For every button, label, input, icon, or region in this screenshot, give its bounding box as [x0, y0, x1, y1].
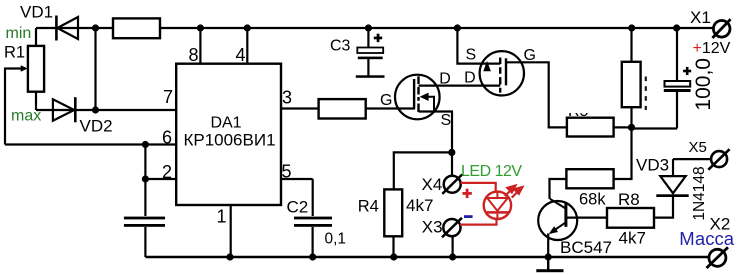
wire node to 68k resistor right lead [613, 127, 632, 179]
terminal X4 [442, 174, 462, 194]
svg-text:Масса: Масса [679, 228, 734, 249]
plus sign red [462, 189, 471, 198]
svg-text:VD2: VD2 [80, 116, 113, 135]
svg-text:R4: R4 [358, 198, 379, 216]
terminal X1 [712, 19, 730, 38]
IC DA1 KR1006VI1 [176, 64, 281, 205]
svg-text:LED 12V: LED 12V [461, 163, 522, 180]
wire VD1 anode-cathode horizontal [36, 27, 96, 29]
wire C2 bottom lead [312, 227, 314, 257]
LED arrows [505, 186, 523, 198]
wire gate Q2 [506, 62, 567, 127]
svg-text:S: S [466, 47, 477, 64]
diode VD1 [56, 16, 78, 41]
resistor R4 [384, 189, 402, 236]
wire source Q2 from rail [457, 28, 500, 64]
wire drain Q1 to drain Q2 [419, 84, 501, 86]
svg-text:6: 6 [162, 128, 172, 148]
wire pin 8 stub [199, 28, 201, 64]
svg-text:G: G [524, 47, 536, 64]
resistor R8 [607, 208, 654, 228]
wire C4 top lead [676, 28, 678, 81]
resistor 68k [566, 169, 613, 188]
svg-text:3: 3 [282, 88, 292, 108]
svg-text:C3: C3 [330, 38, 351, 55]
plus sign C4 [683, 67, 691, 75]
wire emitter Q3 to ground rail [547, 234, 549, 258]
wire R1 bottom to VD2 [35, 92, 37, 110]
wire vertical node between VD1 and VD2 junctions [94, 28, 96, 110]
svg-text:68k: 68k [579, 191, 606, 209]
svg-text:X4: X4 [422, 175, 443, 194]
svg-text:4: 4 [235, 45, 245, 65]
svg-text:D: D [439, 70, 451, 87]
svg-text:+12V: +12V [693, 40, 731, 57]
svg-text:C2: C2 [287, 198, 309, 217]
svg-text:4k7: 4k7 [619, 229, 646, 248]
wire pin 2 [145, 178, 176, 180]
terminal X3 [442, 218, 462, 238]
wire pin 3 to resistor [281, 107, 319, 109]
ground symbol at emitter [536, 257, 563, 272]
wire VD3 anode lead [672, 159, 674, 176]
MOSFET Q1 [395, 75, 440, 120]
erased label R5 remnant [565, 98, 591, 120]
wire C4 bottom lead [676, 92, 678, 129]
wire VD2 to pin 7 [36, 109, 176, 111]
svg-text:4k7: 4k7 [406, 196, 433, 215]
minus sign blue [464, 215, 473, 218]
wire wiper down left side [4, 68, 6, 145]
svg-text:R8: R8 [618, 190, 640, 209]
wire X3 to ground rail [452, 236, 454, 257]
LED red wiring to X3 [460, 219, 497, 225]
plus sign C3 [374, 34, 382, 42]
wire pin 4 stub [246, 28, 248, 64]
wire R5 right lead [614, 126, 632, 128]
svg-text:7: 7 [163, 87, 173, 107]
erased label remnant dashes right of R6 [645, 77, 647, 111]
wire R4 bottom lead [392, 236, 394, 257]
wire top +12V rail [96, 27, 715, 29]
wire node to C4 bottom lead [632, 127, 678, 129]
svg-text:0,1: 0,1 [325, 231, 347, 248]
wire R1 wiper [5, 67, 22, 69]
svg-text:X5: X5 [689, 139, 707, 156]
wire C3 bottom lead [367, 59, 369, 76]
resistor R5 partially erased label [567, 118, 614, 137]
capacitor C3 [357, 48, 383, 60]
svg-text:100,0: 100,0 [692, 58, 715, 111]
wire node to X4 terminal [451, 152, 453, 176]
LED VD4 [484, 192, 511, 220]
wire pin 1 stub [230, 205, 232, 257]
svg-text:КР1006ВИ1: КР1006ВИ1 [183, 130, 275, 149]
wire VD3 cathode to R8 [654, 197, 673, 218]
wire C2 top lead [312, 179, 314, 216]
svg-text:X1: X1 [690, 8, 711, 27]
svg-text:VD1: VD1 [20, 3, 53, 22]
svg-text:max: max [11, 107, 41, 124]
svg-text:min: min [6, 25, 32, 42]
wire C1 bottom lead [144, 227, 146, 257]
svg-text:G: G [380, 92, 392, 109]
svg-text:1N4148: 1N4148 [691, 166, 708, 220]
resistor R2 top [113, 18, 160, 38]
capacitor C1 [124, 217, 165, 227]
svg-text:8: 8 [188, 45, 198, 65]
svg-text:5: 5 [282, 162, 292, 182]
wire R8 to base Q3 [566, 217, 607, 219]
resistor R6 vertical [622, 62, 641, 107]
svg-text:BC547: BC547 [560, 238, 612, 257]
wire R6 top lead [630, 28, 632, 62]
potentiometer R1 [21, 46, 44, 92]
wire 68k to collector Q3 [550, 179, 567, 199]
wire R6 bottom lead [630, 107, 632, 127]
terminal X2 [707, 247, 729, 268]
capacitor C4 100,0 [664, 81, 691, 92]
ground bar below C3 [356, 75, 385, 78]
wire node to R4 [394, 152, 452, 190]
svg-text:X3: X3 [422, 218, 443, 237]
wire C1 top lead [144, 145, 146, 217]
svg-text:D: D [464, 70, 476, 87]
wire pin 5 [281, 178, 313, 180]
svg-text:1: 1 [217, 206, 227, 226]
transistor Q3 BC547 [538, 199, 577, 240]
wire R1 top to VD1 [35, 28, 37, 46]
resistor R3 [319, 99, 366, 118]
MOSFET Q2 [480, 51, 524, 95]
svg-text:2: 2 [162, 162, 172, 182]
wire C3 top lead [367, 28, 369, 48]
svg-text:S: S [441, 112, 452, 129]
svg-text:DA1: DA1 [210, 114, 241, 131]
wire ground bottom rail [145, 256, 709, 259]
wire pin 6 [5, 143, 176, 145]
diode VD2 [53, 97, 75, 122]
svg-text:R1: R1 [4, 44, 25, 62]
wire resistor to gate Q1 [366, 107, 415, 109]
svg-text:VD3: VD3 [636, 156, 669, 175]
capacitor C2 [294, 217, 332, 227]
wire X5 terminal [673, 158, 711, 160]
LED red wiring from X4 [460, 183, 497, 225]
terminal X5 [708, 149, 729, 170]
wire source Q1 [419, 112, 453, 153]
diode VD3 [656, 176, 688, 197]
